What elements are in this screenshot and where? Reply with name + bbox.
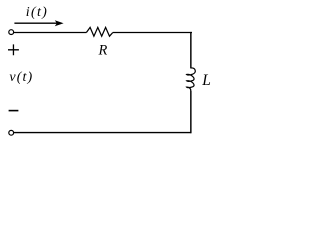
svg-text:v(t): v(t) xyxy=(9,70,33,85)
minus sign xyxy=(9,110,19,112)
inductor L xyxy=(187,68,196,91)
svg-text:L: L xyxy=(201,72,211,89)
resistor R xyxy=(86,27,112,36)
current arrow shaft xyxy=(14,22,57,24)
terminal (top-left, open circle) xyxy=(9,30,14,35)
svg-text:R: R xyxy=(98,43,108,59)
current arrow head xyxy=(55,20,64,26)
terminal (bottom-left, open circle) xyxy=(9,130,14,135)
wire (right side, bottom: inductor to corner) xyxy=(190,91,192,133)
wire (top-left: terminal to resistor) xyxy=(14,32,87,34)
svg-text:i(t): i(t) xyxy=(26,5,48,20)
plus sign xyxy=(8,44,19,55)
wire (bottom: corner to terminal) xyxy=(14,132,192,134)
wire (right side, top: corner to inductor) xyxy=(190,32,192,69)
wire (top-right: resistor to corner) xyxy=(113,32,192,34)
